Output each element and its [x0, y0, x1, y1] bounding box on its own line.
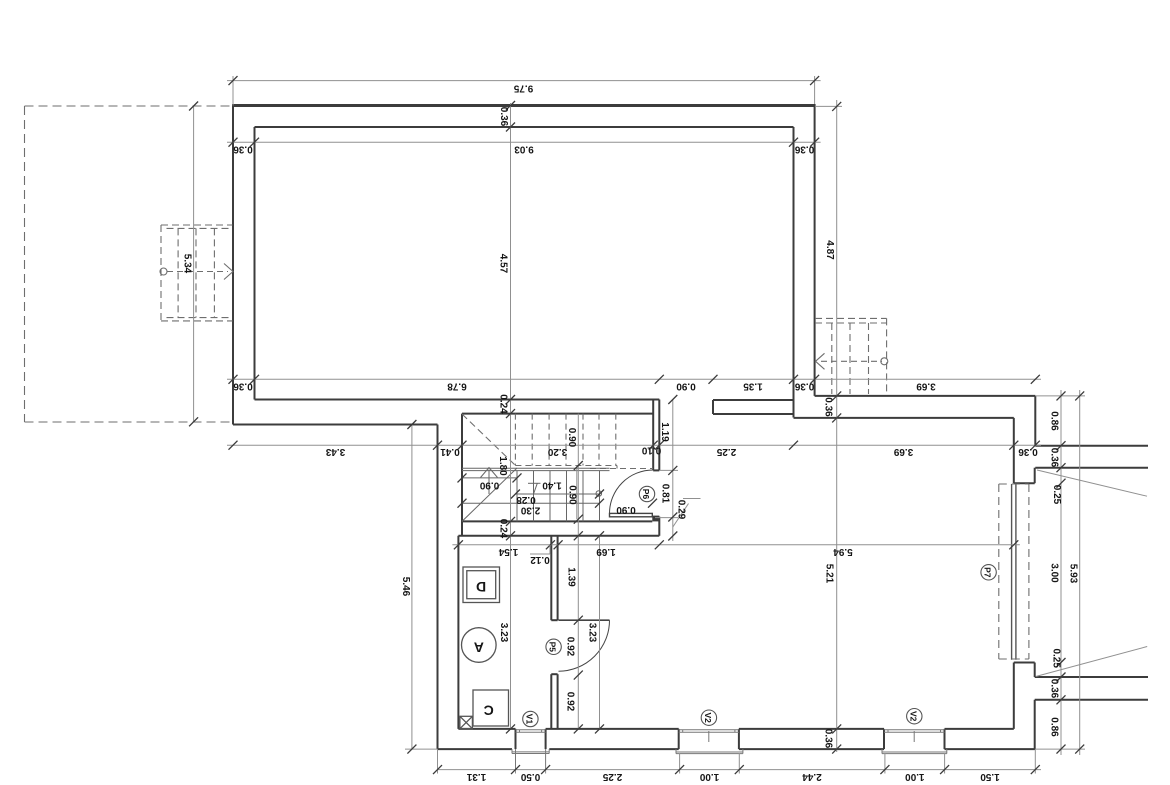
- svg-text:0.12: 0.12: [530, 554, 550, 565]
- svg-text:0.50: 0.50: [520, 771, 540, 782]
- svg-text:1.40: 1.40: [542, 479, 562, 490]
- svg-text:V2: V2: [703, 712, 713, 723]
- svg-text:0.24: 0.24: [497, 519, 508, 539]
- svg-text:9.75: 9.75: [513, 82, 533, 93]
- svg-text:3.23: 3.23: [587, 623, 598, 643]
- svg-text:5.34: 5.34: [182, 254, 193, 274]
- svg-text:0.41: 0.41: [440, 446, 460, 457]
- svg-text:0.90: 0.90: [479, 479, 499, 490]
- svg-text:0.90: 0.90: [566, 428, 577, 448]
- svg-text:0.36: 0.36: [1048, 679, 1059, 699]
- svg-text:5.46: 5.46: [400, 577, 411, 597]
- svg-text:2.30: 2.30: [520, 504, 540, 515]
- svg-text:2.25: 2.25: [602, 771, 622, 782]
- svg-text:0.36: 0.36: [823, 397, 834, 417]
- svg-text:1.69: 1.69: [596, 546, 616, 557]
- svg-text:1.80: 1.80: [497, 456, 508, 476]
- svg-text:V2: V2: [908, 711, 918, 722]
- svg-text:2.44: 2.44: [802, 771, 822, 782]
- svg-text:D: D: [476, 579, 486, 595]
- svg-text:3.23: 3.23: [498, 623, 509, 643]
- svg-text:0.25: 0.25: [1050, 648, 1061, 668]
- svg-text:0.36: 0.36: [794, 380, 814, 391]
- svg-text:0.36: 0.36: [233, 143, 253, 154]
- svg-text:0.36: 0.36: [823, 729, 834, 749]
- svg-text:0.36: 0.36: [794, 143, 814, 154]
- svg-text:9.03: 9.03: [514, 143, 534, 154]
- svg-text:6.78: 6.78: [447, 380, 467, 391]
- svg-text:1.00: 1.00: [905, 771, 925, 782]
- svg-text:1.31: 1.31: [466, 771, 486, 782]
- svg-text:P6: P6: [641, 489, 651, 500]
- svg-text:1.50: 1.50: [980, 771, 1000, 782]
- svg-text:4.57: 4.57: [498, 254, 509, 274]
- svg-text:0.29: 0.29: [676, 500, 687, 520]
- svg-text:0.24: 0.24: [497, 394, 508, 414]
- svg-text:P7: P7: [983, 567, 993, 578]
- svg-text:A: A: [474, 640, 484, 656]
- svg-text:1.35: 1.35: [743, 380, 763, 391]
- svg-text:0.90: 0.90: [676, 380, 696, 391]
- svg-text:0.36: 0.36: [1048, 448, 1059, 468]
- svg-text:5.94: 5.94: [833, 546, 853, 557]
- svg-text:3.00: 3.00: [1048, 563, 1059, 583]
- svg-text:0.25: 0.25: [1051, 485, 1062, 505]
- svg-text:C: C: [484, 703, 494, 719]
- svg-text:0.86: 0.86: [1048, 411, 1059, 431]
- svg-text:3.20: 3.20: [547, 446, 567, 457]
- svg-text:0.36: 0.36: [1018, 446, 1038, 457]
- svg-text:1.19: 1.19: [659, 422, 670, 442]
- svg-text:5.93: 5.93: [1068, 564, 1079, 584]
- svg-text:0.86: 0.86: [1048, 717, 1059, 737]
- svg-text:2.25: 2.25: [716, 446, 736, 457]
- svg-text:V1: V1: [524, 714, 534, 725]
- svg-text:1.54: 1.54: [498, 546, 518, 557]
- svg-text:0.81: 0.81: [660, 484, 671, 504]
- svg-text:0.28: 0.28: [516, 494, 536, 505]
- svg-text:5.21: 5.21: [824, 564, 835, 584]
- svg-text:0.90: 0.90: [616, 504, 636, 515]
- svg-text:3.69: 3.69: [916, 380, 936, 391]
- svg-text:1.39: 1.39: [565, 567, 576, 587]
- svg-text:0.36: 0.36: [233, 380, 253, 391]
- svg-text:0.92: 0.92: [565, 637, 576, 657]
- svg-text:3.43: 3.43: [325, 446, 345, 457]
- svg-text:P5: P5: [548, 642, 558, 653]
- svg-text:0.92: 0.92: [565, 692, 576, 712]
- svg-text:4.87: 4.87: [824, 240, 835, 260]
- svg-text:0.90: 0.90: [566, 485, 577, 505]
- svg-text:3.69: 3.69: [893, 446, 913, 457]
- svg-text:1.00: 1.00: [699, 771, 719, 782]
- svg-text:0.36: 0.36: [498, 107, 509, 127]
- svg-text:0.10: 0.10: [641, 445, 661, 456]
